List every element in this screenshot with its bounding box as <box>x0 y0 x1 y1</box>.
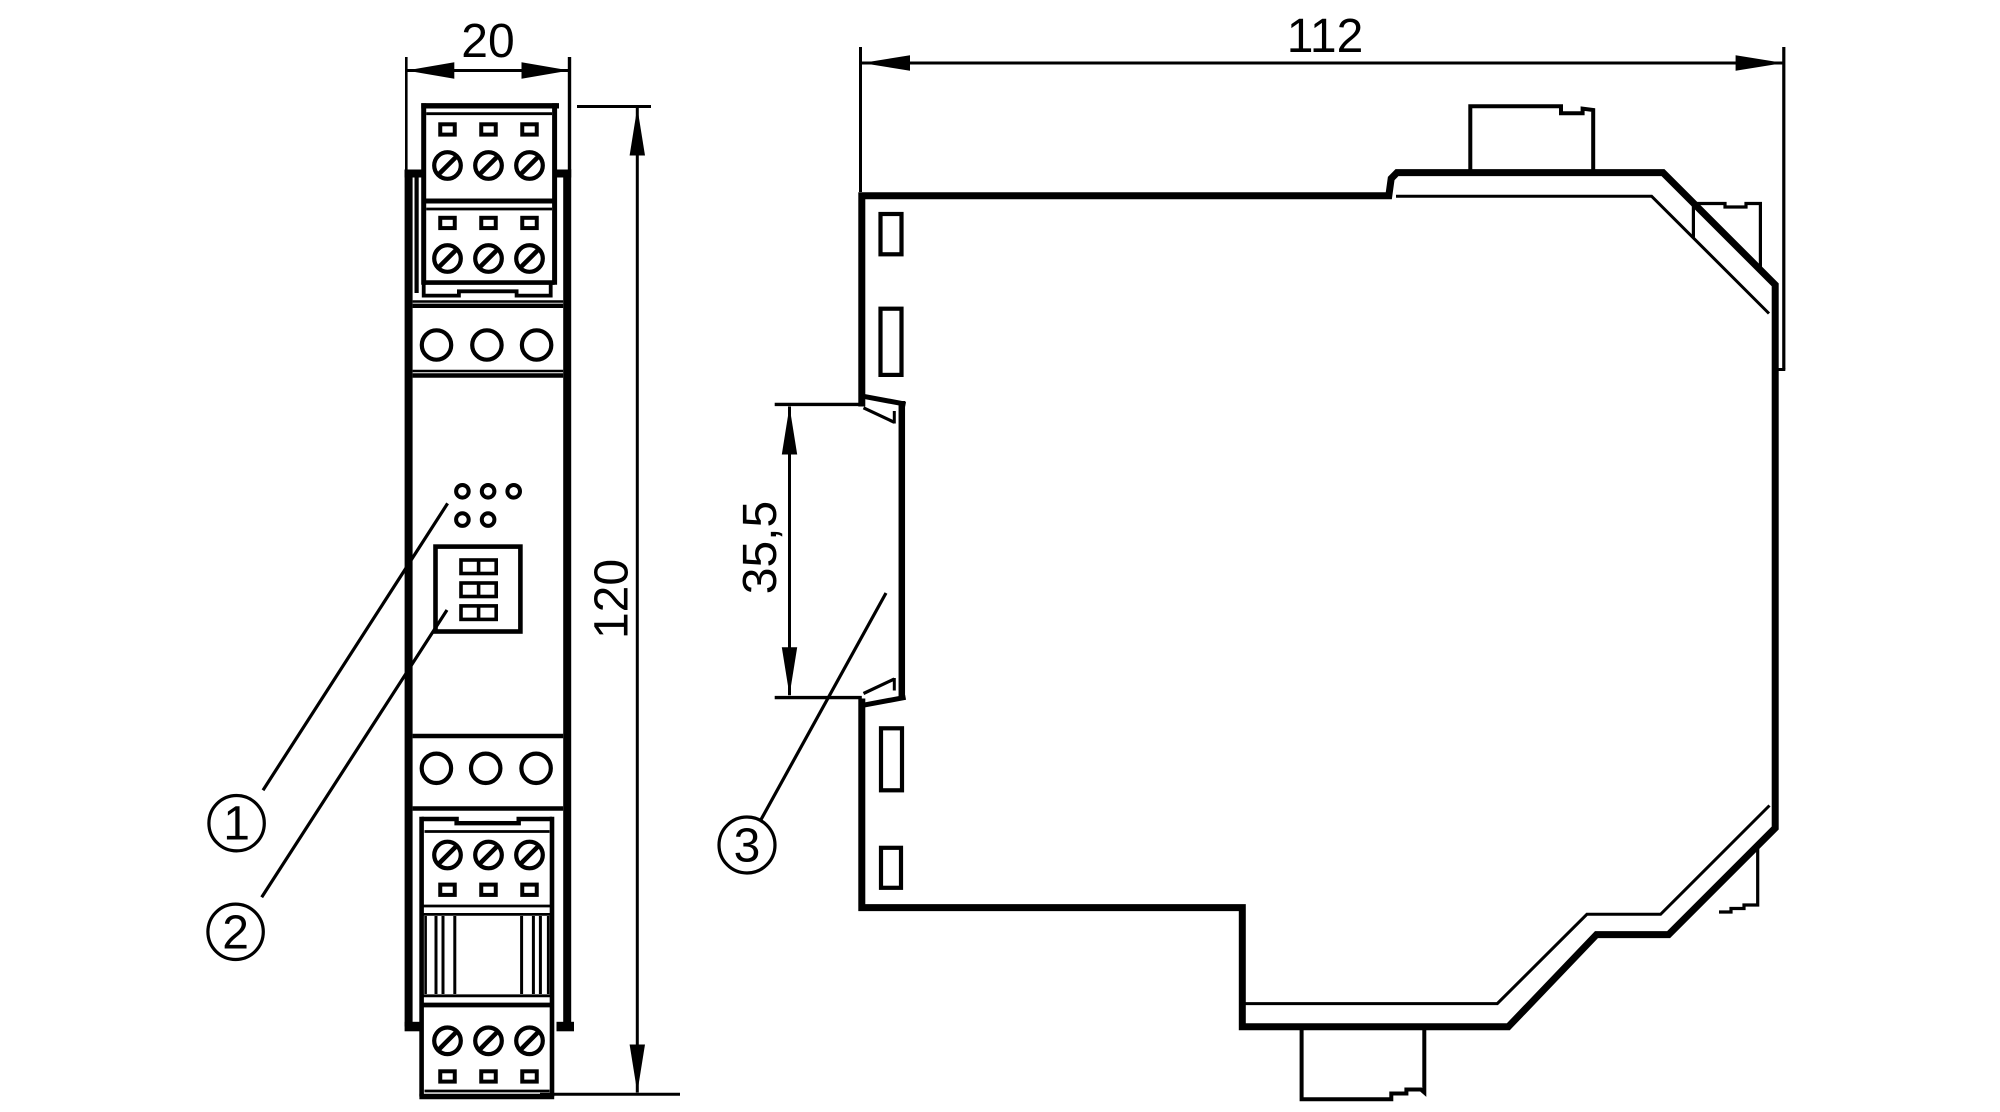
extension line right of 20 <box>568 57 571 170</box>
terminal block top : outline <box>421 103 559 285</box>
bottom connector bump <box>1302 1030 1425 1099</box>
terminal block top : bottom edge <box>424 280 555 285</box>
label leader 1 <box>263 503 448 790</box>
svg-text:1: 1 <box>223 798 250 851</box>
socket vertical ribs <box>426 916 549 994</box>
label circle 3 <box>719 817 775 873</box>
dimension 120 line <box>630 108 645 1093</box>
svg-text:35,5: 35,5 <box>734 501 787 594</box>
notch top hook <box>864 396 906 423</box>
svg-text:120: 120 <box>586 559 639 639</box>
rear slot 2 <box>881 309 902 375</box>
rear slot 4 <box>881 848 901 888</box>
terminal screw 2c <box>516 245 543 272</box>
dimension 35,5 bottom extension <box>775 696 862 699</box>
terminal wire square 2a <box>440 218 455 228</box>
inner contour bottom <box>1242 806 1769 1004</box>
dimension 120 bottom reference line <box>540 1093 680 1096</box>
terminal screw 3c <box>516 842 543 869</box>
side view main outline <box>862 173 1775 1027</box>
inner contour top <box>1396 196 1769 313</box>
DIP switch row 2 <box>461 583 496 597</box>
terminal screw 4a <box>434 1028 461 1055</box>
DIP switch row 3 <box>461 606 496 620</box>
terminal block bottom : side walls <box>422 817 552 1097</box>
terminal wire square 1c <box>522 124 537 134</box>
terminal screw 2a <box>434 245 461 272</box>
LED row 1 b <box>482 485 495 498</box>
label circle 1 <box>209 796 264 851</box>
band 1 circle c <box>522 330 551 359</box>
rear slot 3 <box>881 728 902 790</box>
strip bottom <box>1776 368 1786 371</box>
terminal screw 4c <box>516 1028 543 1055</box>
terminal block top : bottom skirt <box>424 285 551 296</box>
DIP switch outline <box>436 547 521 632</box>
terminal screw 3b <box>475 842 502 869</box>
terminal screw 1b <box>475 152 502 179</box>
notch inner face <box>899 401 906 698</box>
body bottom foot right <box>557 1022 575 1032</box>
terminal wire square 4c <box>522 1071 537 1081</box>
terminal block bottom : inner bottom line <box>425 1090 550 1093</box>
rear slot 1 <box>881 214 902 254</box>
terminal wire square 4b <box>481 1071 496 1081</box>
terminal wire square 2b <box>481 218 496 228</box>
svg-text:20: 20 <box>461 15 514 68</box>
band 2 circle c <box>521 754 550 783</box>
body top edge left stub <box>405 170 423 178</box>
dimension 35,5 top extension <box>775 403 862 406</box>
band 2 top line <box>413 734 564 739</box>
LED row 1 a <box>456 485 469 498</box>
terminal screw 3a <box>434 842 461 869</box>
extension line left of 112 <box>859 47 862 192</box>
terminal wire square 3c <box>522 885 537 895</box>
band 1 bottom line <box>413 371 564 376</box>
terminal block bottom : bottom edge <box>419 1094 554 1099</box>
dimension 20 line <box>406 62 569 78</box>
terminal screw 1c <box>516 152 543 179</box>
DIP switch row 1 <box>461 560 496 574</box>
bottom right small bump <box>1719 846 1758 913</box>
label leader 3 <box>761 593 886 820</box>
body inner line left <box>415 176 419 293</box>
module body left wall <box>405 170 413 1027</box>
terminal block top : divider <box>424 199 555 204</box>
module body right wall <box>563 170 571 1027</box>
band 2 circle b <box>471 754 500 783</box>
socket top lines <box>422 906 552 914</box>
band 2 circle a <box>422 754 451 783</box>
terminal wire square 2c <box>522 218 537 228</box>
band 2 bottom line <box>413 806 564 811</box>
svg-text:3: 3 <box>734 820 761 873</box>
LED row 1 c <box>507 485 520 498</box>
dimension 112 line <box>862 55 1784 70</box>
terminal wire square 3a <box>440 885 455 895</box>
terminal wire square 1b <box>481 124 496 134</box>
top connector bump <box>1470 106 1593 171</box>
body bottom foot left <box>405 1022 422 1032</box>
dimension 120 top reference line <box>577 105 651 108</box>
band 1 top line <box>413 302 564 306</box>
extension line right of 112 / strip right edge <box>1782 47 1785 370</box>
svg-text:2: 2 <box>222 906 249 959</box>
label leader 2 <box>262 610 447 897</box>
terminal screw 1a <box>434 152 461 179</box>
terminal block bottom : top edge with tab <box>422 819 552 823</box>
terminal wire square 1a <box>440 124 455 134</box>
band 1 circle b <box>472 330 501 359</box>
notch bottom hook <box>864 678 906 705</box>
terminal wire square 4a <box>440 1071 455 1081</box>
svg-text:112: 112 <box>1287 10 1364 63</box>
terminal wire square 3b <box>481 885 496 895</box>
dimension 35,5 line <box>782 407 797 696</box>
terminal screw 2b <box>475 245 502 272</box>
LED row 2 a <box>456 513 469 526</box>
label circle 2 <box>208 904 263 959</box>
LED row 2 b <box>482 513 495 526</box>
extension line left of 20 <box>405 57 408 170</box>
body top edge right stub <box>554 170 571 178</box>
terminal screw 4b <box>475 1028 502 1055</box>
band 1 circle a <box>422 330 451 359</box>
terminal block bottom : inner top line <box>425 830 550 833</box>
top right small bump <box>1693 204 1760 269</box>
socket bottom lines <box>422 996 552 1005</box>
